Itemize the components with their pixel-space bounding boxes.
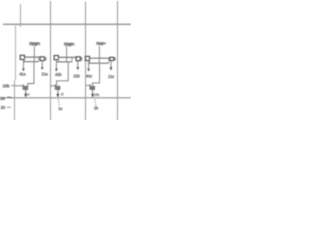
svg-text:24: 24 xyxy=(0,96,5,101)
svg-text:17b: 17b xyxy=(94,93,99,97)
svg-text:41c: 41c xyxy=(86,73,93,78)
svg-text:Vpgm: Vpgm xyxy=(29,41,40,46)
svg-text:41b: 41b xyxy=(55,72,62,77)
svg-text:1b: 1b xyxy=(94,106,99,111)
svg-text:20b: 20b xyxy=(3,83,11,88)
svg-text:21c: 21c xyxy=(108,74,115,79)
svg-text:17: 17 xyxy=(61,93,65,97)
svg-text:Vpgm: Vpgm xyxy=(64,41,75,46)
svg-text:21a: 21a xyxy=(41,71,48,76)
svg-text:Vpgm: Vpgm xyxy=(96,42,106,46)
svg-text:20: 20 xyxy=(1,105,6,110)
svg-text:41a: 41a xyxy=(19,72,26,77)
svg-text:21b: 21b xyxy=(73,73,80,78)
